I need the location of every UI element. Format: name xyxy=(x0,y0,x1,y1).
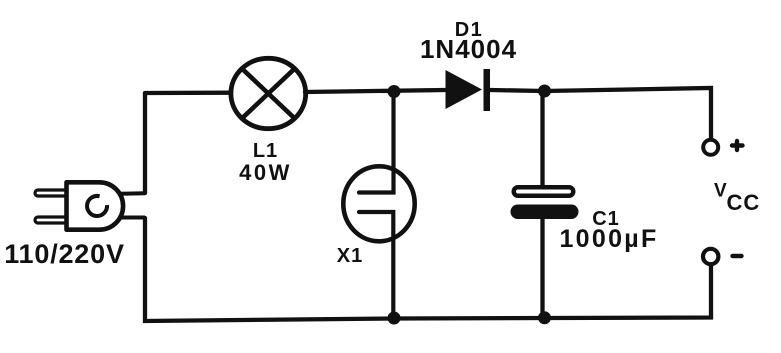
svg-text:40W: 40W xyxy=(239,160,292,185)
svg-text:L1: L1 xyxy=(253,140,278,162)
svg-text:CC: CC xyxy=(727,190,761,215)
svg-text:X1: X1 xyxy=(337,245,363,267)
svg-text:110/220V: 110/220V xyxy=(4,239,125,269)
svg-text:1000µF: 1000µF xyxy=(559,225,658,253)
svg-text:1N4004: 1N4004 xyxy=(420,34,517,64)
svg-text:V: V xyxy=(714,181,727,202)
